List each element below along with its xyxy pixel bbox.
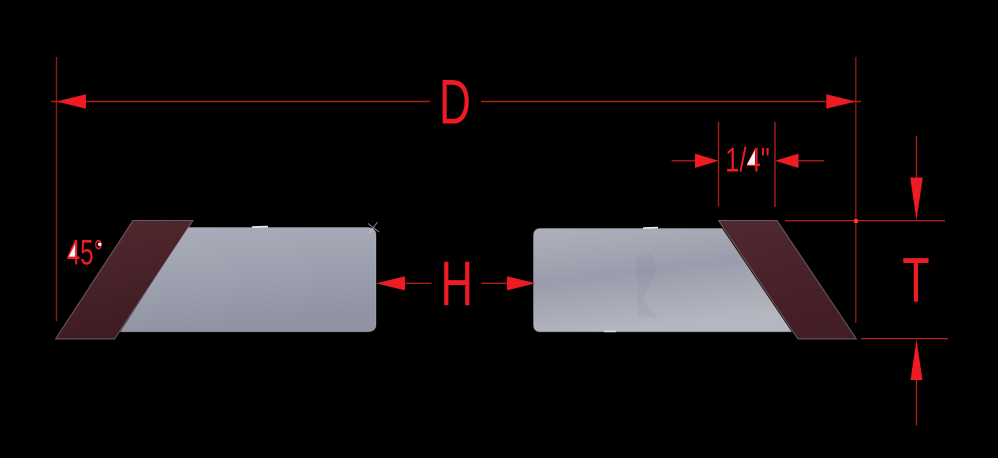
1/4 right arrowhead bbox=[775, 154, 799, 168]
1/4 right extension line bbox=[774, 122, 776, 207]
1/4 left tail line bbox=[672, 160, 696, 162]
T lower arrowhead (up) bbox=[911, 340, 923, 380]
wheel right faint ghost marking bbox=[636, 252, 658, 318]
D right extension line bbox=[855, 57, 857, 323]
wheel left gray body bbox=[121, 228, 377, 332]
degree symbol white center bbox=[98, 243, 102, 247]
D left extension line bbox=[56, 57, 58, 321]
1/4 left arrowhead bbox=[695, 154, 719, 168]
T lower horizontal line bbox=[861, 338, 948, 340]
1/4 label white counter of 4 bbox=[747, 150, 755, 164]
D dimension line right segment bbox=[481, 101, 861, 103]
wheel right abrasive face (maroon) bbox=[719, 221, 857, 340]
wheel left top edge highlight dash bbox=[252, 226, 268, 228]
svg-text:D: D bbox=[439, 67, 471, 138]
T extension intersection dot bbox=[854, 219, 858, 223]
1/4 right tail line bbox=[799, 160, 825, 162]
svg-text:H: H bbox=[440, 248, 473, 319]
H left tail line bbox=[404, 282, 432, 284]
wheel left corner sparkle bbox=[368, 222, 379, 234]
svg-text:1/4": 1/4" bbox=[725, 142, 770, 179]
svg-text:T: T bbox=[902, 245, 929, 315]
T upper horizontal line bbox=[785, 220, 945, 222]
T upper leader line bbox=[916, 136, 918, 179]
wheel right bottom edge highlight dash bbox=[604, 330, 616, 332]
wheel left abrasive face (maroon) bbox=[56, 221, 194, 340]
T lower leader line bbox=[916, 380, 918, 425]
H right arrowhead bbox=[507, 276, 536, 290]
45 label white counter of 4 bbox=[69, 244, 75, 257]
D dimension line left segment bbox=[51, 101, 430, 103]
wheel right gray body bbox=[534, 229, 792, 332]
H right tail line bbox=[481, 282, 508, 284]
D left arrowhead bbox=[57, 94, 87, 109]
D right arrowhead bbox=[826, 94, 856, 109]
T upper arrowhead (down) bbox=[910, 178, 923, 221]
H left arrowhead bbox=[376, 276, 405, 290]
1/4 left extension line bbox=[718, 122, 720, 207]
wheel right top edge highlight dash bbox=[643, 227, 658, 229]
